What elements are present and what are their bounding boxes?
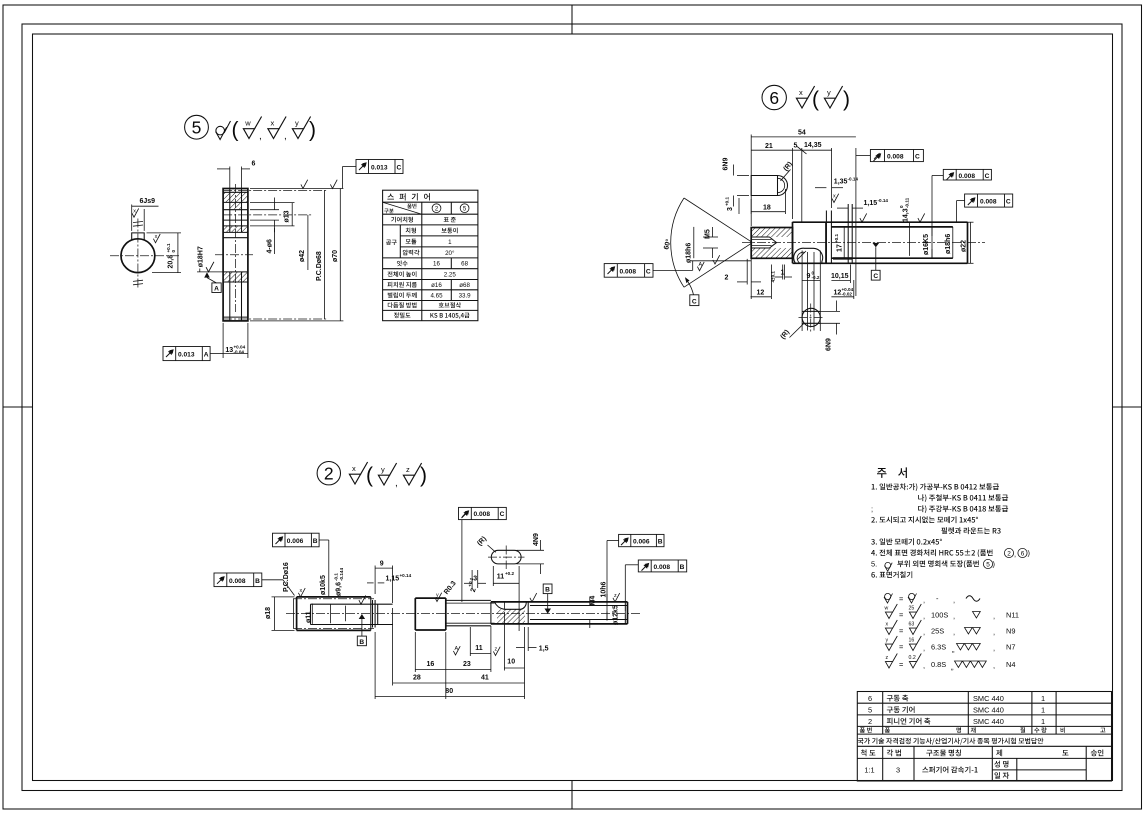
svg-text:,: , (923, 612, 925, 621)
dim 11 lower (469, 627, 471, 656)
svg-text:x: x (133, 209, 136, 215)
svg-text:,: , (993, 661, 995, 670)
(R) label slot (476, 535, 496, 552)
svg-text:C: C (692, 298, 697, 305)
hole bottom line (223, 219, 248, 221)
svg-text:4±0.1: 4±0.1 (771, 271, 776, 283)
bore top line (223, 237, 248, 239)
svg-text:,: , (993, 644, 995, 653)
dim phi13 (250, 202, 295, 204)
dim 18 keyway length (750, 199, 752, 214)
top OD extension line (250, 188, 343, 190)
dim 12 left (770, 265, 772, 300)
centering mark right (1113, 406, 1142, 408)
svg-text:N4: N4 (1006, 660, 1015, 669)
svg-text:14,3: 14,3 (903, 208, 910, 222)
FCF 0.013 C top (356, 160, 403, 174)
svg-text:0: 0 (899, 205, 904, 208)
centering mark bottom (571, 781, 573, 810)
(R) label bottom (780, 324, 804, 341)
svg-text:N11: N11 (1006, 611, 1019, 620)
counterbore top line (223, 201, 248, 203)
mid section double lines (446, 599, 491, 601)
heading symbol x (796, 86, 814, 108)
section view outline (223, 189, 248, 321)
dim 9 bottom (801, 251, 803, 332)
svg-text:): ) (420, 464, 427, 487)
ring groove 1.15 (847, 204, 849, 263)
dims 54 / 21 / 5 / 14,35 (750, 135, 752, 227)
keyway top line (223, 231, 248, 233)
svg-text:(: ( (366, 464, 373, 487)
surface mark x on keyway (132, 208, 139, 217)
dim 13 bottom (222, 323, 224, 358)
svg-text:,: , (953, 596, 955, 605)
ring groove 1.35 (825, 211, 827, 264)
svg-text:0.013: 0.013 (178, 352, 195, 359)
dim 4-phi6 (250, 209, 279, 211)
svg-text:z: z (614, 593, 617, 599)
svg-text:y: y (827, 88, 831, 97)
svg-text:,: , (259, 131, 262, 142)
surface mark x on 20.8 extension (153, 234, 160, 243)
dim 1,15 (837, 207, 848, 209)
svg-text:SMC 440: SMC 440 (973, 705, 1004, 714)
svg-text:x: x (300, 588, 303, 594)
center line horizontal (110, 255, 181, 257)
svg-text:ø18H7: ø18H7 (198, 246, 205, 267)
bottom-left extension line (690, 260, 751, 262)
svg-text:x: x (271, 119, 275, 128)
svg-text:1,35: 1,35 (834, 179, 848, 186)
heading circled 2 (317, 462, 340, 485)
bottom root line (223, 316, 248, 318)
svg-text:-0.02: -0.02 (842, 291, 853, 296)
dim 6 top (229, 167, 231, 189)
svg-text:5: 5 (868, 705, 872, 714)
datum C triangle on cone (685, 277, 690, 283)
dim 1,35 (815, 187, 826, 189)
svg-text:11: 11 (475, 645, 483, 652)
surface check y on journal (435, 593, 442, 602)
svg-text:ø12k5: ø12k5 (612, 605, 619, 625)
hatch mid column (230, 202, 242, 209)
legend line 2 (885, 604, 1020, 621)
centerline tick marks bottom (133, 280, 143, 281)
svg-text:ø9,6: ø9,6 (336, 582, 343, 596)
svg-text:,: , (923, 661, 925, 670)
svg-text:z: z (495, 647, 498, 653)
svg-text:0.008: 0.008 (654, 564, 671, 571)
svg-text:23: 23 (463, 661, 471, 668)
svg-text:6.3S: 6.3S (931, 643, 946, 652)
svg-text:1,5: 1,5 (539, 646, 549, 653)
svg-text:10: 10 (507, 658, 515, 665)
gear PCD dash lines (293, 598, 374, 600)
surface check A on extension (697, 262, 704, 271)
dim 11 +0.2 slot (492, 566, 494, 586)
roughness legend line 1 (884, 593, 980, 604)
dim 2 (746, 259, 748, 285)
svg-text:1: 1 (781, 270, 785, 277)
svg-text:5: 5 (794, 142, 798, 149)
thread core lines (530, 605, 628, 607)
dim 17 (834, 233, 843, 252)
svg-text:,: , (993, 628, 995, 637)
surface check x on gear OD (298, 588, 305, 597)
svg-text:+0.2: +0.2 (505, 571, 515, 576)
svg-text:20°: 20° (445, 250, 455, 257)
svg-text:28: 28 (413, 674, 421, 681)
center axis (286, 613, 641, 615)
svg-text:y: y (886, 638, 889, 644)
FCF 0.008 B far left (214, 573, 262, 587)
svg-text:2: 2 (725, 275, 729, 282)
svg-text:1: 1 (1041, 717, 1045, 726)
svg-text:14,35: 14,35 (804, 142, 822, 149)
svg-text:B: B (255, 578, 260, 585)
svg-text:x: x (155, 234, 158, 240)
svg-text:A: A (699, 262, 703, 268)
svg-text:6N9: 6N9 (826, 338, 833, 351)
svg-text:6: 6 (769, 88, 779, 108)
svg-text:-0.2: -0.2 (812, 275, 820, 280)
heading symbol x (268, 117, 286, 139)
journal block (414, 598, 416, 630)
gear axis dash (215, 254, 253, 256)
svg-text:+0.14: +0.14 (400, 573, 412, 578)
svg-text:z: z (406, 465, 410, 474)
svg-text:12: 12 (834, 289, 842, 296)
gear OD outline (296, 597, 298, 631)
svg-text:;: ; (871, 505, 873, 514)
svg-text:1,15: 1,15 (864, 200, 878, 207)
right end face (967, 222, 969, 263)
hole top line (223, 209, 248, 211)
svg-text:y: y (295, 119, 299, 128)
surface check right of phi18h6 (713, 255, 720, 264)
svg-text:,: , (953, 628, 955, 637)
keyway pocket local section (495, 602, 527, 609)
svg-text:M4: M4 (590, 596, 597, 606)
dim phi42 (307, 215, 309, 270)
svg-text:2: 2 (324, 464, 334, 484)
svg-text:18: 18 (763, 204, 771, 211)
dim 10 (503, 612, 505, 671)
svg-text:B: B (359, 639, 364, 646)
svg-text:B: B (313, 538, 318, 545)
svg-text:C: C (985, 173, 990, 180)
heading symbol z (403, 463, 421, 485)
datum C on axis (871, 243, 880, 280)
svg-text:20,8: 20,8 (168, 255, 175, 269)
dim 9 (392, 566, 394, 604)
svg-text:5: 5 (986, 562, 990, 569)
svg-text:100S: 100S (931, 611, 948, 620)
svg-text:0.006: 0.006 (633, 538, 650, 545)
heading symbol y (378, 463, 396, 485)
svg-text:ø16: ø16 (431, 282, 442, 289)
dim 1 and 4 (782, 265, 784, 280)
svg-text:21: 21 (765, 143, 773, 150)
svg-text:-0.04: -0.04 (234, 350, 245, 355)
svg-text:A: A (204, 352, 209, 359)
svg-text:(: ( (232, 119, 239, 142)
hatch left portion (751, 228, 792, 238)
svg-text:w: w (244, 119, 251, 128)
surface checks on top extension (301, 180, 308, 189)
svg-text:9: 9 (380, 561, 384, 568)
svg-text:y: y (436, 593, 439, 599)
svg-text:P.C.Dø68: P.C.Dø68 (316, 251, 323, 281)
svg-text:-0.11: -0.11 (905, 197, 910, 208)
shaft top edge (793, 221, 968, 223)
surface check near datum A (206, 262, 214, 272)
svg-text:16: 16 (427, 661, 435, 668)
center line vertical (137, 219, 139, 289)
svg-text:17: 17 (836, 244, 843, 252)
middle flange (792, 222, 794, 263)
bottom OD extension line (250, 320, 343, 322)
svg-text:ø11: ø11 (305, 611, 312, 623)
svg-text:10h6: 10h6 (600, 581, 607, 597)
svg-text:=: = (899, 611, 903, 620)
surface check x near groove (832, 194, 839, 203)
svg-text:ø10k5: ø10k5 (320, 575, 327, 595)
svg-text:x: x (352, 464, 356, 473)
centering mark left (3, 406, 33, 408)
svg-text:13: 13 (225, 347, 233, 354)
dim 3 +0.1 (keyway depth) (725, 196, 734, 211)
svg-text:16: 16 (909, 638, 915, 644)
svg-text:w: w (885, 606, 889, 612)
FCF 0.013 A bottom (163, 347, 210, 361)
svg-text:0.008: 0.008 (474, 511, 491, 518)
hole axis vertical dash (235, 184, 237, 312)
dim 3 (471, 570, 473, 588)
svg-text:,: , (284, 131, 287, 142)
svg-text:-0.14: -0.14 (848, 177, 859, 182)
dim 80 (374, 632, 376, 699)
svg-text:0.008: 0.008 (959, 173, 976, 180)
svg-text:0.2: 0.2 (909, 655, 916, 661)
centering mark top (571, 5, 573, 34)
svg-text:SMC 440: SMC 440 (973, 717, 1004, 726)
(R) label top (781, 161, 795, 181)
lower counterbore top (223, 281, 248, 283)
svg-text:,: , (923, 628, 925, 637)
surface check A lower (453, 646, 460, 655)
svg-text:C: C (915, 154, 920, 161)
svg-text:41: 41 (481, 674, 489, 681)
svg-text:): ) (1028, 549, 1030, 558)
svg-text:3: 3 (896, 766, 900, 775)
svg-text:6N9: 6N9 (722, 158, 729, 171)
svg-text:1: 1 (448, 239, 452, 246)
svg-text:M5: M5 (704, 229, 711, 239)
hatch above keyway (223, 226, 248, 233)
svg-text:0: 0 (171, 250, 176, 253)
svg-text:10,15: 10,15 (831, 273, 849, 280)
svg-text:SMC 440: SMC 440 (973, 694, 1004, 703)
svg-text:ø18: ø18 (265, 607, 272, 619)
svg-text:1:1: 1:1 (864, 766, 874, 775)
bottom keyway pocket on flange (794, 248, 823, 263)
surface check z right end (613, 593, 620, 602)
dim 10,15 (849, 265, 851, 284)
60 deg arc (671, 198, 684, 287)
hatch top rim (223, 192, 248, 202)
PCD dash top (223, 189, 326, 191)
svg-text:5.: 5. (871, 560, 877, 569)
svg-text:0.8S: 0.8S (931, 660, 946, 669)
svg-text:ø13: ø13 (283, 210, 290, 222)
front view: bore circle with keyway (121, 239, 155, 273)
surface checks on top edge (860, 213, 867, 222)
svg-text:-0.144: -0.144 (339, 568, 344, 581)
svg-text:B: B (680, 564, 685, 571)
hatch below bore (223, 272, 248, 282)
svg-text:0.008: 0.008 (980, 199, 997, 206)
svg-text:4N9: 4N9 (533, 533, 540, 546)
center axis (742, 242, 985, 244)
surface check y mid right (530, 593, 537, 602)
svg-text:C: C (646, 268, 651, 275)
2 +0.1 label (467, 577, 478, 593)
bore bottom extension (197, 271, 223, 273)
svg-text:C: C (873, 273, 878, 280)
svg-text:=: = (899, 660, 903, 669)
datum B mid (543, 584, 552, 614)
surface check on root (359, 595, 366, 604)
svg-text:16: 16 (433, 261, 440, 268)
svg-text:=: = (899, 627, 903, 636)
svg-text:,: , (923, 644, 925, 653)
svg-text:=: = (899, 595, 903, 604)
FCF 0.008 C left (604, 264, 653, 278)
FCF 0.008 C part2 (459, 507, 507, 519)
svg-text:ø42: ø42 (299, 250, 306, 262)
dim 12 +0.04/-0.02 (853, 280, 855, 299)
right shaft section (491, 601, 628, 603)
M5 tapped hole (751, 236, 769, 238)
svg-text:x: x (833, 194, 836, 200)
svg-text:N9: N9 (1006, 627, 1015, 636)
svg-text:4-ø6: 4-ø6 (267, 239, 274, 254)
svg-text:25: 25 (909, 606, 915, 612)
heading symbol x (349, 462, 367, 484)
svg-text:54: 54 (798, 129, 806, 136)
svg-text:=: = (899, 643, 903, 652)
svg-text:0.013: 0.013 (371, 165, 388, 172)
svg-text:P.C.Dø16: P.C.Dø16 (283, 562, 290, 592)
dim P.C.D phi68 (324, 190, 326, 319)
svg-text:2: 2 (868, 717, 872, 726)
svg-text:,: , (1014, 550, 1016, 559)
heading roughness all-over symbol (216, 121, 231, 140)
svg-text:6: 6 (868, 694, 872, 703)
svg-text:N7: N7 (1006, 643, 1015, 652)
svg-text:12: 12 (757, 289, 765, 296)
keyway slot rotated view 4N9 x 11 (491, 550, 521, 564)
svg-text:6: 6 (252, 161, 256, 168)
svg-text:B: B (658, 538, 663, 545)
svg-text:x: x (886, 622, 889, 628)
svg-text:ø22: ø22 (960, 240, 967, 252)
heading circled 6 (762, 85, 786, 109)
FCF 0.008 C lower right (965, 194, 1013, 207)
tooth root line top (223, 191, 248, 193)
svg-text:+0.1: +0.1 (834, 233, 839, 243)
FCF 0.006 B left (273, 533, 320, 547)
svg-text:): ) (993, 560, 995, 569)
keyway slot front (132, 233, 145, 241)
svg-text:2.25: 2.25 (444, 272, 457, 279)
legend line 4 (885, 636, 1015, 654)
centerline tick marks top (133, 221, 143, 222)
svg-text:x: x (799, 88, 803, 97)
svg-text:B: B (545, 587, 550, 594)
svg-text:,: , (993, 612, 995, 621)
svg-text:-0.14: -0.14 (878, 198, 889, 203)
svg-text:1,15: 1,15 (386, 575, 400, 582)
datum A (204, 272, 221, 292)
60 deg center cone upper line (684, 198, 753, 243)
svg-text:,: , (953, 612, 955, 621)
heading symbol y (824, 86, 842, 108)
svg-text:+0.1: +0.1 (725, 196, 730, 206)
heading symbol w (243, 117, 261, 139)
legend line 3 (885, 620, 1015, 637)
relief groove cluster (370, 597, 372, 631)
dim 28 / 41 (392, 608, 394, 686)
svg-text:1: 1 (1041, 705, 1045, 714)
phi18h6 journal lines (832, 226, 953, 228)
svg-text:C: C (1006, 199, 1011, 206)
rim face verticals (229, 189, 231, 233)
svg-text:ø68: ø68 (459, 282, 470, 289)
svg-text:0.008: 0.008 (229, 578, 246, 585)
svg-text:): ) (843, 88, 850, 111)
keyway slot rotated view (751, 176, 787, 196)
svg-text:A: A (455, 646, 459, 652)
svg-text:ø18h6: ø18h6 (945, 234, 952, 254)
svg-text:ø18h6: ø18h6 (685, 243, 692, 263)
left shaft portion outline (section) (751, 228, 792, 259)
svg-text:0.008: 0.008 (887, 154, 904, 161)
svg-text:C: C (397, 165, 402, 172)
60 deg center cone lower line (684, 243, 753, 288)
FCF 0.008 C mid right (943, 169, 991, 180)
dim 20.8 +0.1/0 (166, 243, 176, 269)
svg-text:5: 5 (192, 118, 202, 138)
gear root lines (311, 603, 393, 605)
svg-text:ø70: ø70 (332, 250, 339, 262)
counterbore bottom line (223, 225, 248, 227)
dim 1,5 (524, 627, 526, 699)
svg-text:(: ( (812, 88, 819, 111)
heading circled 5 (185, 115, 209, 139)
legend line 5 (885, 654, 1015, 672)
svg-text:33.9: 33.9 (459, 293, 472, 300)
FCF total runout 0.008 C top (870, 150, 923, 162)
svg-text:4.65: 4.65 (430, 293, 443, 300)
dim 16 / 23 (414, 632, 416, 672)
svg-text:ø16K5: ø16K5 (923, 234, 930, 255)
svg-text:): ) (309, 119, 316, 142)
shaft bottom edge (793, 262, 968, 264)
svg-text:-0.1: -0.1 (334, 573, 339, 581)
